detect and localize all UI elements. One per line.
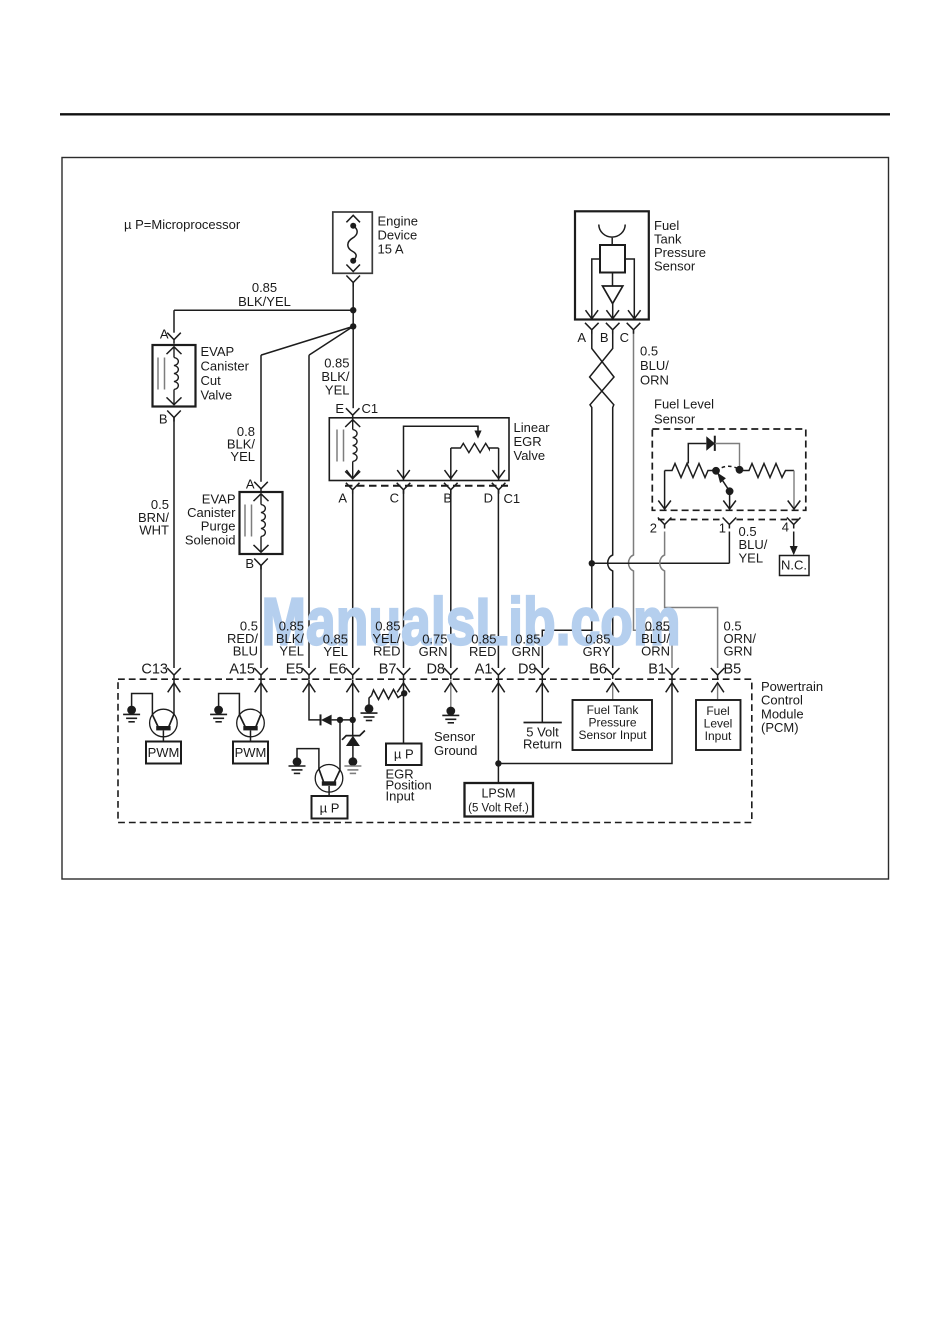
wire Q2 left branch [219, 694, 240, 716]
svg-text:GRY: GRY [583, 644, 611, 659]
svg-text:RED: RED [373, 644, 400, 659]
wire Q3 base lead [328, 786, 330, 796]
diode CR1 bar [320, 714, 322, 725]
EVAP cut valve coil [167, 347, 182, 354]
wire FTP-B with twisted pair and hop [590, 330, 614, 668]
svg-text:D9: D9 [518, 662, 537, 678]
svg-text:YEL: YEL [230, 449, 255, 464]
wire EGR A to E6 [352, 490, 354, 668]
wire C13 into PCM [173, 680, 175, 716]
FTP cup stem [611, 238, 613, 245]
svg-text:Fuel Level: Fuel Level [654, 396, 714, 411]
PWM box Q2 [233, 742, 268, 764]
fuel level wiper contact dot [712, 467, 720, 475]
svg-text:B7: B7 [379, 662, 397, 678]
arrow into PCM at A1 [492, 683, 505, 693]
terminal 2 fuel level [658, 518, 672, 529]
terminal B EVAP cut valve [167, 411, 181, 422]
ground Q2 [210, 713, 227, 715]
svg-text:Input: Input [386, 789, 415, 804]
junction dot Q3 collector [337, 717, 343, 723]
wire drop to EVAP cut valve A [173, 310, 175, 333]
fuel level right resistor lead [793, 471, 795, 509]
LPSM box [465, 783, 534, 817]
ground Q3 [289, 765, 306, 767]
svg-text:ORN: ORN [640, 373, 669, 388]
svg-text:B1: B1 [648, 662, 666, 678]
fuel level wiper arm [717, 472, 730, 492]
EGR pin D arrow [492, 470, 505, 479]
wire B7 resistor ground lead [369, 696, 372, 705]
svg-text:GRN: GRN [724, 644, 753, 659]
svg-text:E5: E5 [286, 662, 304, 678]
svg-text:Sensor: Sensor [654, 411, 696, 426]
svg-text:D8: D8 [426, 662, 445, 678]
svg-text:µ P=Microprocessor: µ P=Microprocessor [124, 217, 241, 232]
terminal B EGR [444, 483, 458, 494]
svg-text:GRN: GRN [419, 644, 448, 659]
wire 0.85 BLK/YEL horizontal feed [174, 309, 353, 311]
terminal C EGR [397, 483, 411, 494]
svg-text:A: A [338, 491, 347, 506]
wire diagonal junction to purge solenoid [261, 326, 353, 355]
fuel level connector dashed line [658, 519, 723, 521]
fuel level wiper travel dashed arc [716, 466, 740, 471]
svg-text:B6: B6 [589, 662, 607, 678]
terminal B1 PCM [665, 668, 679, 679]
wire 5V return horizontal [592, 562, 730, 564]
EGR pot left lead to B [450, 448, 452, 481]
wire D9 into PCM [541, 680, 543, 723]
wire D8 into PCM [450, 680, 452, 708]
terminal A EGR [346, 483, 360, 494]
arrow into PCM at C13 [168, 683, 181, 693]
N.C. box [780, 556, 810, 576]
svg-text:PWM: PWM [235, 745, 267, 760]
junction dot A1/B1 [495, 760, 501, 766]
fuel level left resistor [665, 464, 716, 478]
svg-text:A: A [246, 477, 255, 492]
svg-text:4: 4 [782, 520, 789, 535]
svg-text:Valve: Valve [514, 448, 546, 463]
wire FTP-A jog to D9 [542, 563, 592, 668]
svg-text:YEL: YEL [323, 644, 348, 659]
terminal E C1 EGR [346, 408, 360, 419]
terminal A1 PCM [492, 668, 506, 679]
svg-text:YEL: YEL [279, 644, 304, 659]
fuel level pin2 arrow [658, 501, 671, 510]
FTP sensor cup element [599, 225, 625, 238]
PCM dashed border [118, 679, 752, 822]
svg-text:(PCM): (PCM) [761, 720, 799, 735]
wire FTP-C jog to B1 [628, 330, 672, 668]
svg-text:Valve: Valve [201, 388, 233, 403]
EGR pot right lead to D [498, 448, 500, 481]
terminal D9 PCM [536, 668, 550, 679]
svg-text:Solenoid: Solenoid [185, 532, 236, 547]
arrow into PCM at E6 [346, 683, 359, 693]
EVAP canister purge solenoid box [240, 492, 283, 554]
wire Q3 collector drop [339, 720, 341, 770]
wire FTP-A with twisted pair [590, 330, 614, 564]
wire fuse output stem [352, 283, 354, 311]
fuse bottom dot [350, 258, 356, 264]
wire E5 into PCM to diode [309, 680, 321, 720]
wire purge solenoid B to A15 [260, 566, 262, 669]
svg-text:B: B [600, 330, 609, 345]
5 volt return bar [524, 722, 562, 724]
fuel level sensor dashed box [652, 429, 806, 510]
junction dot fanout [350, 323, 356, 329]
EGR position sensor resistor [451, 443, 499, 452]
svg-text:BLU/: BLU/ [640, 358, 669, 373]
svg-text:ORN: ORN [641, 644, 670, 659]
wire feed down-segment to junction [352, 310, 354, 326]
EGR pin A arrow [346, 470, 359, 479]
terminal B purge solenoid [254, 559, 268, 570]
transistor Q3 [315, 765, 343, 793]
EGR solenoid core [336, 430, 338, 462]
fuel level diode bar [714, 436, 716, 451]
zener diode bar [342, 731, 365, 740]
arrow into PCM at B7 [397, 683, 410, 693]
FTP pin A arrow [586, 310, 599, 319]
zener diode triangle [346, 736, 360, 746]
wire Q1 collector-emitter left branch [132, 694, 153, 716]
svg-text:0.5: 0.5 [640, 343, 658, 358]
junction dot E6/zener [350, 717, 356, 723]
wire Q2 base lead [250, 731, 252, 742]
wire EGR D to A1 [497, 490, 499, 668]
svg-text:A: A [577, 330, 586, 345]
fuel level left resistor lead [664, 471, 666, 509]
junction dot 5V return [589, 560, 595, 566]
terminal B7 PCM [397, 668, 411, 679]
FTP triangle stem [612, 304, 614, 319]
svg-text:B: B [245, 556, 254, 571]
svg-text:Cut: Cut [201, 373, 222, 388]
EVAP canister cut valve box [153, 345, 196, 407]
svg-text:Sensor: Sensor [434, 729, 476, 744]
wire A15 into PCM [260, 680, 262, 715]
svg-text:C1: C1 [504, 491, 521, 506]
svg-text:Linear: Linear [514, 420, 551, 435]
wire Q3 left branch [297, 749, 319, 770]
svg-text:15 A: 15 A [378, 242, 404, 257]
fuel level input box [696, 700, 741, 750]
svg-text:D: D [484, 491, 493, 506]
svg-text:PWM: PWM [148, 745, 180, 760]
svg-text:Input: Input [705, 729, 732, 743]
svg-text:µ P: µ P [320, 801, 340, 816]
EGR C1 connector dashed line [345, 485, 508, 487]
arrow into PCM at E5 [303, 683, 316, 693]
uP box Q3 [312, 796, 348, 819]
PWM box Q1 [146, 742, 181, 764]
EGR pin B arrow [445, 470, 458, 479]
arrow into PCM at B6 [606, 683, 619, 693]
FTP square stem [612, 273, 614, 287]
wire B7 into PCM to uP [403, 680, 405, 744]
fuel level diode left lead [688, 444, 706, 464]
svg-text:Sensor: Sensor [654, 259, 696, 274]
fuel tank pressure sensor input box [573, 700, 653, 750]
diode CR1 triangle [321, 715, 332, 726]
transistor Q2 [237, 709, 265, 737]
wire A1 into PCM to LPSM [497, 680, 499, 784]
FTP side branch left [592, 259, 600, 319]
wire diagonal junction to E5 branch [309, 326, 353, 355]
terminal C FTP [627, 323, 641, 334]
FTP sensor square element [600, 245, 625, 273]
svg-text:RED: RED [469, 644, 496, 659]
fuse top dot [350, 223, 356, 229]
svg-text:BLK/YEL: BLK/YEL [238, 294, 291, 309]
EVAP purge solenoid core [244, 505, 246, 537]
svg-text:B5: B5 [724, 662, 742, 678]
wire B1 jog to A1 [498, 680, 672, 764]
svg-text:E6: E6 [329, 662, 347, 678]
ground Q1 [123, 713, 140, 715]
fuel level wiper pivot dot [726, 487, 734, 495]
fuse top arrow [346, 215, 360, 222]
transistor Q1 [150, 709, 178, 737]
arrow into PCM at D9 [536, 683, 549, 693]
fuel level diode right lead [715, 444, 740, 467]
svg-text:(5 Volt Ref.): (5 Volt Ref.) [468, 803, 529, 815]
svg-text:B: B [443, 491, 452, 506]
fuse Engine Device 15A box [333, 212, 373, 273]
terminal B FTP [606, 323, 620, 334]
svg-text:YEL: YEL [739, 550, 764, 565]
fuse bottom arrow [346, 265, 360, 272]
svg-text:Canister: Canister [201, 359, 250, 374]
svg-text:0.85: 0.85 [252, 280, 277, 295]
svg-text:1: 1 [719, 521, 726, 536]
terminal A purge solenoid [254, 482, 268, 493]
svg-text:C: C [620, 330, 629, 345]
FTP pin B arrow [606, 310, 619, 319]
EVAP purge solenoid coil [254, 494, 269, 501]
junction dot R1/B7 [401, 690, 407, 696]
fuel level right resistor [740, 464, 795, 478]
wire fuel level pin2 to B5 [660, 532, 718, 669]
ground dot Q2 [214, 706, 223, 715]
svg-text:C1: C1 [362, 401, 379, 416]
svg-text:LPSM: LPSM [481, 787, 515, 801]
fuel level pin4 arrow [788, 501, 801, 510]
fuse output terminal [346, 276, 360, 287]
fuel level wiper right dot [736, 466, 744, 474]
EGR pin C arrow [397, 470, 410, 479]
terminal E5 PCM [302, 668, 316, 679]
wire diode to zener junction [332, 719, 353, 721]
terminal D8 PCM [444, 668, 458, 679]
wire 0.85 BLK/YEL to E5 [308, 355, 310, 668]
svg-text:EGR: EGR [514, 434, 542, 449]
uP box EGR position input [386, 744, 422, 766]
top rule [60, 113, 890, 115]
FTP side branch right [625, 259, 634, 319]
svg-text:C13: C13 [141, 662, 168, 678]
terminal 1 fuel level [723, 518, 737, 529]
wire purge solenoid A drop [260, 355, 262, 482]
svg-text:A15: A15 [229, 662, 255, 678]
wire B5 into PCM [717, 683, 719, 700]
wire B6 into PCM [612, 683, 614, 700]
terminal E6 PCM [346, 668, 360, 679]
svg-text:GRN: GRN [512, 644, 541, 659]
wire fuel level pin4 to N.C. [793, 532, 795, 547]
svg-text:B: B [159, 412, 168, 427]
fuel level pin1 arrow [723, 501, 736, 510]
EVAP cut valve core [157, 358, 159, 390]
wire Q1 base lead [162, 731, 164, 742]
wire EVAP cut valve B to C13 [173, 418, 175, 669]
arrow into PCM at B1 [666, 683, 679, 693]
wire EGR B to D8 [450, 490, 452, 668]
ground dot Q1 [127, 706, 136, 715]
svg-text:YEL: YEL [325, 383, 350, 398]
ground dot Q3 [293, 757, 302, 766]
wire E6 into PCM [352, 680, 354, 736]
wire junction to EGR pin E [352, 326, 354, 408]
svg-text:EVAP: EVAP [201, 344, 235, 359]
svg-text:Ground: Ground [434, 743, 477, 758]
frame border [62, 158, 889, 880]
terminal B5 PCM [711, 668, 725, 679]
svg-text:WHT: WHT [139, 523, 169, 538]
svg-text:BLU: BLU [233, 644, 258, 659]
terminal A15 PCM [254, 668, 268, 679]
ground dot sensor ground D8 [446, 707, 455, 716]
svg-text:Return: Return [523, 737, 562, 752]
EGR wiper feed wire [404, 426, 479, 480]
wire EGR C to B7 [403, 490, 405, 668]
terminal A FTP [585, 323, 599, 334]
FTP sensor triangle element [603, 286, 623, 304]
fuel level pin1 lead [729, 491, 731, 508]
wire zener to ground [352, 746, 354, 758]
terminal D C1 EGR [492, 483, 506, 494]
EGR wiper arrowhead [474, 431, 481, 439]
wire fuel level pin1 to 5V return [728, 532, 730, 564]
resistor R1 (EGR position pullup) [372, 690, 405, 700]
FTP pin C arrow [628, 310, 641, 319]
svg-text:C: C [390, 491, 399, 506]
fuel tank pressure sensor box [575, 211, 649, 319]
svg-text:Device: Device [378, 228, 418, 243]
arrow into PCM at B5 [711, 683, 724, 693]
svg-text:Engine: Engine [378, 214, 418, 229]
terminal C13 PCM [167, 668, 181, 679]
svg-text:N.C.: N.C. [781, 558, 807, 573]
ground sensor ground [442, 714, 459, 716]
EGR solenoid coil [345, 420, 360, 427]
ground dot R1 [365, 704, 374, 713]
svg-text:E: E [335, 401, 344, 416]
junction dot feed/horizontal [350, 307, 356, 313]
svg-text:A: A [160, 327, 169, 342]
terminal B6 PCM [606, 668, 620, 679]
fuel level diode triangle [706, 436, 715, 451]
svg-text:µ P: µ P [394, 747, 414, 762]
arrow into PCM at A15 [255, 683, 268, 693]
ground dot zener [349, 757, 358, 766]
ground zener [344, 765, 361, 767]
ground R1 [361, 712, 378, 714]
svg-text:2: 2 [650, 521, 657, 536]
arrow into PCM at D8 [445, 683, 458, 693]
svg-text:A1: A1 [475, 662, 493, 678]
svg-text:Sensor Input: Sensor Input [578, 728, 647, 742]
N.C. arrowhead [790, 546, 798, 555]
terminal 4 fuel level [787, 518, 801, 529]
linear EGR valve box [329, 418, 509, 481]
fuel level wiper arrowhead [717, 473, 726, 484]
fuse element squiggle [348, 226, 357, 261]
terminal A EVAP cut valve [167, 333, 181, 344]
